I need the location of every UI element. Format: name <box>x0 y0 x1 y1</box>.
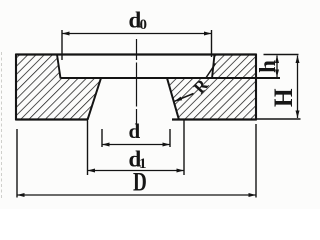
R leader line lower segment with arrow <box>175 94 194 102</box>
svg-text:h: h <box>255 60 280 73</box>
d0 right extension line <box>211 30 213 57</box>
top face line <box>15 53 257 55</box>
H dimension line <box>297 56 299 119</box>
svg-text:H: H <box>269 89 298 108</box>
h dimension line <box>276 56 278 78</box>
left block hatching <box>16 55 101 120</box>
bottom-left face <box>15 118 88 120</box>
d1 right extension line <box>183 121 185 176</box>
hole right wall <box>167 78 179 120</box>
d0 left extension line <box>61 30 63 60</box>
svg-text:0: 0 <box>140 17 148 33</box>
recess left slope <box>57 55 61 79</box>
svg-text:d: d <box>129 119 141 143</box>
right edge <box>255 54 257 120</box>
D right extension line <box>255 124 257 198</box>
left edge <box>15 54 17 120</box>
recess right slope <box>212 55 215 79</box>
d dimension line <box>102 144 170 146</box>
right block hatching <box>167 55 256 120</box>
D dimension line <box>17 194 256 196</box>
faint scanner edge artifact <box>1 52 3 198</box>
d1 dimension line <box>88 170 185 172</box>
hole left wall <box>88 78 102 120</box>
svg-text:D: D <box>133 168 147 197</box>
d0 dimension line <box>62 33 212 35</box>
D left extension line <box>16 129 18 198</box>
H/h top extension line <box>264 54 299 56</box>
d1 left extension line <box>87 121 89 176</box>
R leader line upper segment <box>206 64 216 79</box>
H bottom extension line <box>257 118 301 120</box>
recess floor line (extends right for h dim) <box>60 77 280 79</box>
d dimension left tick <box>101 129 103 147</box>
centerline <box>136 39 138 133</box>
d dimension right tick <box>169 129 171 147</box>
bottom-right face <box>172 118 257 120</box>
